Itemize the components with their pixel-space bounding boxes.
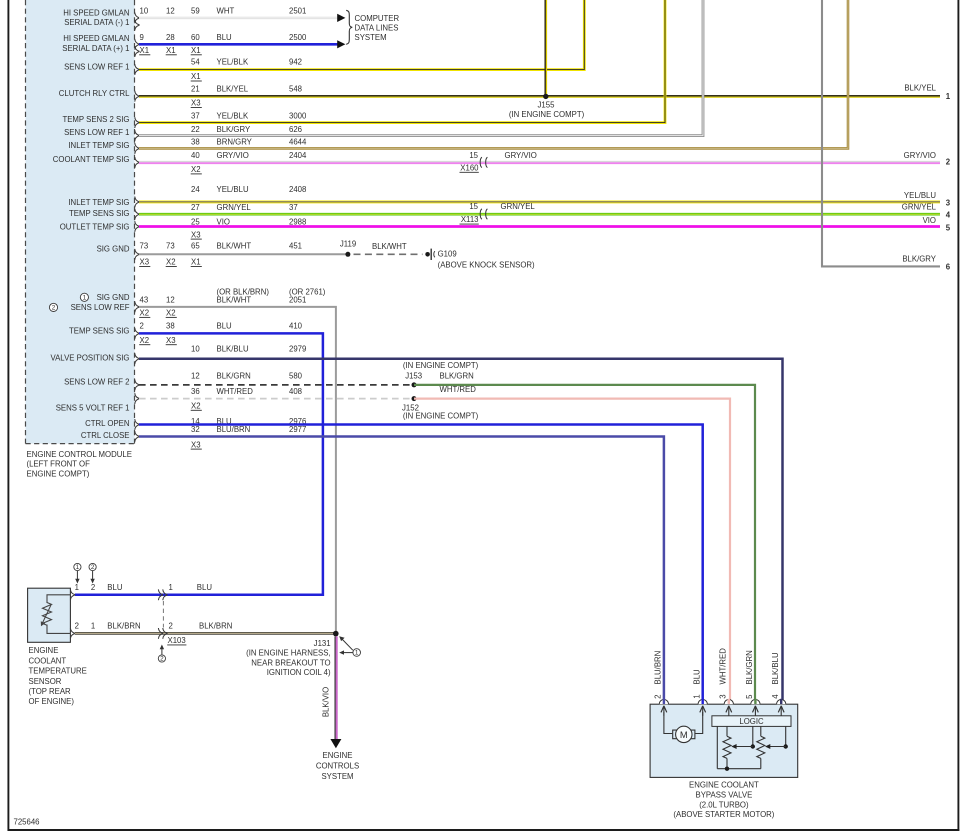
inline connector X103 (158, 589, 162, 600)
svg-text:12: 12 (166, 7, 175, 16)
svg-text:SENSOR: SENSOR (29, 677, 62, 686)
svg-text:(IN ENGINE COMPT): (IN ENGINE COMPT) (403, 412, 479, 421)
svg-text:SERIAL DATA (-) 1: SERIAL DATA (-) 1 (64, 18, 129, 27)
svg-text:BLU: BLU (217, 33, 233, 42)
svg-text:X2: X2 (166, 309, 176, 318)
svg-text:BLU: BLU (197, 583, 213, 592)
svg-text:SENS LOW REF 1: SENS LOW REF 1 (64, 63, 129, 72)
svg-text:4: 4 (771, 694, 780, 699)
svg-text:1: 1 (83, 295, 87, 302)
svg-text:OF ENGINE): OF ENGINE) (29, 697, 75, 706)
svg-text:BRN/GRY: BRN/GRY (217, 138, 253, 147)
svg-text:21: 21 (191, 85, 200, 94)
svg-text:X103: X103 (168, 636, 186, 645)
wiper 2 drop wire (785, 726, 787, 746)
svg-text:2979: 2979 (289, 344, 306, 353)
svg-text:408: 408 (289, 387, 302, 396)
wire BLK/YEL 548 vertical to top (544, 0, 546, 97)
svg-text:(IN ENGINE HARNESS,: (IN ENGINE HARNESS, (246, 649, 330, 658)
svg-text:25: 25 (191, 217, 200, 226)
sensor internal wiring (47, 595, 70, 634)
LOGIC box (712, 716, 791, 727)
wire BLU 2976 (139, 425, 703, 705)
svg-text:BLK/BRN: BLK/BRN (199, 622, 232, 631)
svg-text:BLK/BRN: BLK/BRN (107, 622, 140, 631)
svg-text:43: 43 (140, 295, 149, 304)
svg-text:X2: X2 (140, 336, 150, 345)
svg-text:24: 24 (191, 185, 200, 194)
svg-text:COMPUTER: COMPUTER (355, 14, 400, 23)
svg-text:4644: 4644 (289, 138, 307, 147)
svg-text:TEMP SENS 2 SIG: TEMP SENS 2 SIG (62, 115, 129, 124)
svg-text:HI SPEED GMLAN: HI SPEED GMLAN (63, 34, 129, 43)
svg-text:5: 5 (946, 223, 951, 232)
svg-text:1: 1 (76, 564, 80, 571)
svg-text:2988: 2988 (289, 217, 306, 226)
svg-text:38: 38 (191, 138, 200, 147)
svg-text:X1: X1 (191, 258, 201, 267)
svg-text:OUTLET TEMP SIG: OUTLET TEMP SIG (60, 223, 130, 232)
svg-text:X1: X1 (191, 46, 201, 55)
svg-text:36: 36 (191, 387, 200, 396)
svg-text:X1: X1 (166, 46, 176, 55)
svg-text:54: 54 (191, 58, 200, 67)
svg-text:BLK/GRY: BLK/GRY (902, 255, 936, 264)
svg-text:X2: X2 (140, 309, 150, 318)
wire YEL/BLK 942 (139, 0, 584, 70)
svg-text:60: 60 (191, 33, 200, 42)
svg-text:SYSTEM: SYSTEM (355, 33, 387, 42)
ECM module box right dashed edge (134, 0, 136, 444)
svg-text:2: 2 (91, 583, 95, 592)
svg-text:ENGINE COMPT): ENGINE COMPT) (27, 469, 90, 478)
svg-text:73: 73 (140, 242, 149, 251)
svg-text:9: 9 (140, 33, 144, 42)
svg-text:INLET TEMP SIG: INLET TEMP SIG (68, 198, 129, 207)
svg-text:BLU: BLU (693, 669, 702, 685)
arrow head engine controls system (330, 739, 341, 748)
svg-text:GRY/VIO: GRY/VIO (505, 151, 537, 160)
svg-text:1: 1 (169, 583, 173, 592)
sensor pin bumps (70, 589, 74, 600)
svg-text:BLU/BRN: BLU/BRN (654, 651, 663, 685)
wire BLU 2500 (139, 43, 338, 46)
svg-text:65: 65 (191, 242, 200, 251)
sensor thermistor arrow (42, 605, 51, 625)
svg-text:X3: X3 (166, 336, 176, 345)
svg-text:WHT/RED: WHT/RED (440, 385, 477, 394)
svg-text:22: 22 (191, 125, 200, 134)
junction J153 (412, 382, 417, 387)
svg-text:15: 15 (469, 202, 478, 211)
svg-text:INLET TEMP SIG: INLET TEMP SIG (68, 141, 129, 150)
wiper 2 junction dot (784, 744, 788, 748)
wire GRY/VIO 2404 (139, 161, 940, 163)
svg-text:2: 2 (52, 305, 56, 312)
junction J119 (345, 252, 350, 257)
resistor R1 zigzag (723, 736, 731, 758)
svg-text:1: 1 (693, 694, 702, 698)
svg-text:SENS LOW REF: SENS LOW REF (71, 303, 130, 312)
svg-text:CTRL CLOSE: CTRL CLOSE (81, 431, 130, 440)
svg-text:451: 451 (289, 242, 302, 251)
logic drop wire left (716, 726, 718, 768)
sensor thermistor zigzag (43, 603, 52, 626)
svg-text:WHT/RED: WHT/RED (719, 648, 728, 685)
svg-text:GRY/VIO: GRY/VIO (217, 151, 249, 160)
svg-text:X1: X1 (191, 72, 201, 81)
svg-text:28: 28 (166, 33, 175, 42)
svg-text:BLK/VIO: BLK/VIO (321, 687, 330, 717)
wiper 1 drop wire (752, 726, 754, 746)
svg-text:VIO: VIO (217, 217, 230, 226)
ECM module box left dashed edge (25, 0, 27, 444)
svg-text:BLU: BLU (107, 583, 123, 592)
svg-text:BLK/BLU: BLK/BLU (771, 652, 780, 684)
page frame left border (7, 0, 9, 831)
svg-text:(ABOVE KNOCK SENSOR): (ABOVE KNOCK SENSOR) (438, 260, 535, 269)
svg-text:WHT/RED: WHT/RED (217, 387, 254, 396)
page frame bottom border (8, 829, 960, 831)
svg-text:2501: 2501 (289, 7, 306, 16)
curly brace computer data lines (346, 10, 352, 44)
svg-text:GRY/VIO: GRY/VIO (904, 151, 936, 160)
svg-text:LOGIC: LOGIC (739, 717, 764, 726)
page frame right border (957, 0, 959, 831)
svg-text:4: 4 (946, 211, 951, 220)
wire WHT/RED 408 dashed segment (139, 398, 412, 400)
wiper 1 arrow (736, 746, 753, 748)
wire BLK/GRN 580 dashed segment (139, 384, 412, 386)
svg-text:CLUTCH RLY CTRL: CLUTCH RLY CTRL (59, 89, 130, 98)
svg-text:2500: 2500 (289, 33, 307, 42)
svg-text:(2.0L TURBO): (2.0L TURBO) (699, 800, 749, 809)
svg-text:ENGINE: ENGINE (29, 646, 59, 655)
svg-text:37: 37 (289, 203, 298, 212)
svg-text:TEMP SENS SIG: TEMP SENS SIG (69, 327, 130, 336)
svg-text:CTRL OPEN: CTRL OPEN (85, 419, 129, 428)
splice X113 symbol (480, 209, 482, 219)
svg-text:73: 73 (166, 242, 175, 251)
svg-text:1: 1 (75, 583, 79, 592)
svg-text:HI SPEED GMLAN: HI SPEED GMLAN (63, 8, 129, 17)
svg-text:SIG GND: SIG GND (97, 293, 130, 302)
svg-text:2: 2 (140, 321, 144, 330)
svg-text:X2: X2 (166, 258, 176, 267)
svg-text:BLU: BLU (217, 321, 233, 330)
resistor R1 top lead (726, 726, 728, 736)
wire BLK/BLU 2979 (139, 359, 783, 705)
svg-text:GRN/YEL: GRN/YEL (902, 203, 937, 212)
resistor R2 bottom lead (760, 758, 762, 768)
resistor R2 top lead (760, 726, 762, 736)
svg-text:VALVE POSITION SIG: VALVE POSITION SIG (50, 354, 129, 363)
svg-text:X3: X3 (191, 440, 201, 449)
svg-text:GRN/YEL: GRN/YEL (501, 202, 536, 211)
sensor box fill (28, 588, 71, 642)
svg-text:BLK/WHT: BLK/WHT (217, 242, 252, 251)
svg-text:2: 2 (946, 158, 951, 167)
svg-text:COOLANT: COOLANT (29, 656, 67, 665)
svg-text:2: 2 (75, 622, 79, 631)
svg-text:1: 1 (946, 92, 951, 101)
svg-text:SENS 5 VOLT REF 1: SENS 5 VOLT REF 1 (56, 404, 130, 413)
motor M symbol (676, 726, 692, 742)
svg-text:942: 942 (289, 58, 302, 67)
svg-text:ENGINE: ENGINE (323, 751, 353, 760)
svg-text:2: 2 (654, 694, 663, 698)
svg-text:626: 626 (289, 125, 302, 134)
svg-text:15: 15 (469, 151, 478, 160)
svg-text:2: 2 (91, 564, 95, 571)
svg-text:1: 1 (355, 650, 359, 657)
svg-text:59: 59 (191, 7, 200, 16)
svg-text:BLU/BRN: BLU/BRN (217, 425, 251, 434)
svg-text:CONTROLS: CONTROLS (316, 762, 359, 771)
svg-text:BLK/YEL: BLK/YEL (904, 83, 936, 92)
svg-text:SIG GND: SIG GND (97, 245, 130, 254)
svg-text:COOLANT TEMP SIG: COOLANT TEMP SIG (53, 155, 130, 164)
wiper 2 arrow (769, 746, 786, 748)
ECM module box fill (26, 0, 135, 444)
svg-text:G109: G109 (438, 250, 457, 259)
wire BLK/VIO (334, 636, 336, 739)
svg-text:2404: 2404 (289, 151, 307, 160)
wire BLK/YEL 548 horizontal (139, 95, 940, 97)
svg-text:BLK/GRN: BLK/GRN (217, 371, 251, 380)
wire BLK/GRY to edge (822, 0, 940, 266)
svg-text:3: 3 (719, 694, 728, 698)
svg-text:TEMPERATURE: TEMPERATURE (29, 667, 87, 676)
svg-text:ENGINE CONTROL MODULE: ENGINE CONTROL MODULE (27, 450, 132, 459)
svg-text:BLK/GRN: BLK/GRN (745, 650, 754, 684)
svg-text:3: 3 (946, 199, 951, 208)
svg-text:SYSTEM: SYSTEM (321, 772, 353, 781)
svg-text:X113: X113 (461, 215, 479, 224)
resistor R1 bottom lead (726, 758, 728, 768)
motor feed wires (664, 712, 672, 734)
svg-text:TEMP SENS SIG: TEMP SENS SIG (69, 209, 130, 218)
wire BLK/WHT 2051 (139, 307, 336, 634)
wire BRN/GRY 4644 (139, 0, 848, 148)
junction J155 (543, 94, 548, 99)
wire YEL/BLK 3000 (139, 0, 665, 123)
svg-text:X3: X3 (140, 258, 150, 267)
wire WHT 2501 (139, 17, 338, 19)
circled 2 above sensor pins (89, 563, 96, 570)
svg-text:6: 6 (946, 263, 951, 272)
svg-text:X3: X3 (191, 230, 201, 239)
wire BLU 410 (75, 333, 323, 594)
wiper 1 junction dot (751, 744, 755, 748)
svg-text:VIO: VIO (923, 216, 936, 225)
svg-text:X3: X3 (191, 99, 201, 108)
svg-text:(ABOVE STARTER MOTOR): (ABOVE STARTER MOTOR) (673, 810, 774, 819)
svg-text:1: 1 (91, 622, 95, 631)
svg-text:(IN ENGINE COMPT): (IN ENGINE COMPT) (509, 110, 585, 119)
svg-text:YEL/BLK: YEL/BLK (217, 58, 249, 67)
bottom rail (717, 768, 761, 770)
ECM module box bottom dashed edge (26, 443, 135, 445)
svg-text:38: 38 (166, 321, 175, 330)
bottom rail junction dot (725, 767, 729, 771)
svg-text:10: 10 (140, 7, 149, 16)
svg-text:27: 27 (191, 203, 200, 212)
ECM label circled 2 SENS LOW REF (49, 303, 57, 311)
ECM label circled 1 SIG GND (80, 293, 88, 301)
svg-text:12: 12 (166, 295, 175, 304)
svg-text:X2: X2 (191, 165, 201, 174)
svg-text:X1: X1 (140, 46, 150, 55)
svg-text:BLK/WHT: BLK/WHT (217, 295, 252, 304)
wire BLU/BRN 2977 (139, 437, 664, 705)
svg-text:YEL/BLU: YEL/BLU (904, 191, 936, 200)
wire BLK/GRY 626 (139, 0, 703, 136)
svg-text:2977: 2977 (289, 425, 306, 434)
svg-text:(LEFT FRONT OF: (LEFT FRONT OF (27, 460, 91, 469)
svg-text:J131: J131 (314, 639, 331, 648)
svg-text:580: 580 (289, 371, 303, 380)
svg-text:37: 37 (191, 112, 200, 121)
svg-text:IGNITION COIL 4): IGNITION COIL 4) (267, 668, 331, 677)
circled 1 above sensor pins (74, 563, 81, 570)
svg-text:(IN ENGINE COMPT): (IN ENGINE COMPT) (403, 361, 479, 370)
svg-text:725646: 725646 (14, 818, 40, 827)
svg-text:2: 2 (160, 656, 164, 663)
svg-text:NEAR BREAKOUT TO: NEAR BREAKOUT TO (251, 658, 330, 667)
svg-text:548: 548 (289, 85, 302, 94)
svg-text:10: 10 (191, 344, 200, 353)
svg-text:GRN/YEL: GRN/YEL (217, 203, 252, 212)
splice X160 symbol (480, 157, 482, 167)
bypass valve pin entry arrows (663, 706, 665, 716)
svg-text:BLK/WHT: BLK/WHT (372, 242, 407, 251)
svg-text:SENS LOW REF 1: SENS LOW REF 1 (64, 128, 129, 137)
bypass valve wire stubs into sockets (663, 699, 665, 704)
svg-text:2051: 2051 (289, 295, 306, 304)
wire BLK/WHT 451 dashed segment (354, 253, 423, 255)
svg-text:BLK/BLU: BLK/BLU (217, 344, 249, 353)
svg-text:SENS LOW REF 2: SENS LOW REF 2 (64, 378, 129, 387)
svg-text:M: M (680, 729, 688, 740)
svg-text:SERIAL DATA (+) 1: SERIAL DATA (+) 1 (62, 44, 129, 53)
arrow head WHT wire (337, 14, 345, 22)
ground G109 symbol (425, 252, 430, 257)
svg-text:X2: X2 (191, 402, 201, 411)
circled 2 below X103 (158, 655, 165, 662)
bypass valve pin sockets on top edge (659, 700, 668, 705)
svg-text:40: 40 (191, 151, 200, 160)
circled 1 pointer at J131 (353, 649, 361, 657)
svg-text:YEL/BLU: YEL/BLU (217, 185, 249, 194)
svg-text:YEL/BLK: YEL/BLK (217, 112, 249, 121)
bypass valve box fill (650, 704, 798, 777)
svg-text:ENGINE COOLANT: ENGINE COOLANT (689, 781, 759, 790)
wire WHT/RED 408 solid segment (414, 399, 730, 705)
wire GRN/YEL 37 (139, 213, 940, 216)
wire BLK/GRN 580 solid segment (414, 385, 755, 704)
wire VIO 2988 (139, 225, 940, 228)
svg-text:3000: 3000 (289, 112, 307, 121)
svg-text:2408: 2408 (289, 185, 306, 194)
svg-text:(TOP REAR: (TOP REAR (29, 687, 72, 696)
resistor R2 zigzag (757, 736, 765, 758)
junction J152 (412, 396, 417, 401)
svg-text:5: 5 (745, 694, 754, 699)
svg-text:32: 32 (191, 425, 200, 434)
junction J131 (333, 631, 339, 637)
wire BLK/BRN sensor to J131 (75, 632, 336, 635)
svg-text:12: 12 (191, 371, 200, 380)
svg-text:BLK/YEL: BLK/YEL (217, 85, 249, 94)
svg-text:BLK/GRN: BLK/GRN (440, 371, 474, 380)
wire BLK/WHT 451 (139, 253, 348, 255)
wire YEL/BLU 2408 (139, 200, 940, 203)
arrow head BLU wire (337, 40, 345, 48)
svg-text:WHT: WHT (217, 7, 235, 16)
svg-text:J155: J155 (538, 100, 556, 109)
svg-text:J153: J153 (405, 371, 422, 380)
svg-text:DATA LINES: DATA LINES (355, 24, 399, 33)
ECM connector pin symbols (135, 13, 139, 24)
svg-text:410: 410 (289, 321, 303, 330)
svg-text:BYPASS VALVE: BYPASS VALVE (696, 791, 753, 800)
svg-text:J119: J119 (340, 240, 356, 249)
svg-text:2: 2 (169, 622, 173, 631)
svg-text:BLK/GRY: BLK/GRY (217, 125, 251, 134)
svg-text:X160: X160 (460, 163, 479, 172)
